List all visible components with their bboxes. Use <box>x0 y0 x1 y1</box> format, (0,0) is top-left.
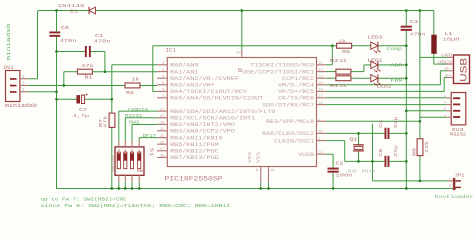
capacitor C6 symbol <box>49 32 60 34</box>
svg-text:1: 1 <box>444 95 446 99</box>
wire ground rail <box>56 188 456 190</box>
LED1 symbol <box>371 61 378 68</box>
svg-text:C2: C2 <box>336 160 344 166</box>
svg-text:JP1: JP1 <box>455 175 466 179</box>
svg-text:1: 1 <box>318 118 320 122</box>
svg-text:4: 4 <box>162 75 164 79</box>
svg-text:9: 9 <box>318 138 320 142</box>
svg-text:comp: comp <box>387 47 403 52</box>
wire C7 right <box>85 98 112 100</box>
svg-text:DF17: DF17 <box>143 133 157 139</box>
svg-text:7: 7 <box>162 95 164 99</box>
svg-text:2: 2 <box>449 185 451 189</box>
resistor R2 body <box>125 83 140 88</box>
svg-text:20: 20 <box>236 52 240 56</box>
svg-text:23: 23 <box>160 122 164 126</box>
svg-text:2: 2 <box>162 62 164 66</box>
wire RA0 horizontal <box>112 64 157 66</box>
capacitor C7 symbol (polarized) <box>76 95 80 103</box>
wire RC0 hook <box>326 64 332 66</box>
svg-text:1k: 1k <box>339 83 347 89</box>
wire VSS pins to ground <box>260 182 262 188</box>
svg-text:VM/D-/RC4: VM/D-/RC4 <box>278 83 314 89</box>
svg-text:RB4/AN11/KBI0: RB4/AN11/KBI0 <box>170 135 223 141</box>
op-amp U1 IC1 box <box>167 58 316 167</box>
wire OSC1 row <box>326 140 345 142</box>
svg-text:18: 18 <box>318 102 322 106</box>
svg-text:C4: C4 <box>379 119 384 128</box>
svg-text:D1: D1 <box>70 8 78 14</box>
svg-text:miniadsb: miniadsb <box>5 103 37 109</box>
svg-text:up to Fw 7: SW2(RB2)=CRC: up to Fw 7: SW2(RB2)=CRC <box>41 196 127 202</box>
svg-text:C3: C3 <box>410 19 418 25</box>
svg-text:RB3/AN9/CCP2/VPO: RB3/AN9/CCP2/VPO <box>170 129 235 135</box>
svg-text:miniadsb: miniadsb <box>6 24 12 61</box>
svg-text:11: 11 <box>318 62 322 66</box>
resistor R1 body <box>77 69 92 74</box>
wire C5 row left <box>345 160 385 162</box>
svg-text:RS232: RS232 <box>450 132 466 137</box>
svg-text:22k: 22k <box>425 140 430 153</box>
wire C6 branch lower / left vertical bus <box>56 36 58 189</box>
wire MCLR horizontal <box>326 120 420 122</box>
resistor R4 body <box>336 76 351 81</box>
wire L1 to UBUS <box>433 54 435 64</box>
LED3 symbol <box>371 42 378 49</box>
svg-text:RA6/CLKO/OSC2: RA6/CLKO/OSC2 <box>262 131 314 137</box>
svg-text:2: 2 <box>444 102 446 106</box>
svg-text:D+: D+ <box>445 74 453 79</box>
jumper JP1 body <box>453 178 455 190</box>
svg-text:C1: C1 <box>95 33 103 39</box>
wire GND bus lower <box>405 30 407 188</box>
svg-text:22p: 22p <box>394 145 399 158</box>
svg-text:28: 28 <box>160 155 164 159</box>
switch S1 top pin stubs <box>118 141 120 147</box>
IC1 right pin stubs <box>317 64 326 66</box>
svg-text:R5: R5 <box>342 49 350 55</box>
svg-text:RB7/KBI3/PGD: RB7/KBI3/PGD <box>170 155 219 161</box>
wire DIP switch grounds <box>118 182 120 189</box>
capacitor C3 symbol <box>401 26 412 28</box>
svg-text:8: 8 <box>256 169 258 173</box>
capacitor C5 symbol <box>385 156 387 167</box>
svg-text:470n: 470n <box>410 32 426 38</box>
connector USB body <box>454 55 470 84</box>
svg-text:1k: 1k <box>338 39 346 45</box>
svg-text:RE3/VPP/MCLR: RE3/VPP/MCLR <box>266 119 314 125</box>
wire RA4 stub link <box>153 90 157 92</box>
IC1 left pin stubs <box>157 64 167 66</box>
svg-text:since Fw 8: SW2(RB2)=TimeTAG;: since Fw 8: SW2(RB2)=TimeTAG; RB5=CRC; R… <box>41 203 231 209</box>
svg-text:RB1/SCL/SCK/AN10/INT1: RB1/SCL/SCK/AN10/INT1 <box>170 116 255 122</box>
svg-text:RA3/AN3/VR+: RA3/AN3/VR+ <box>170 83 215 89</box>
capacitor C4 symbol <box>385 128 387 139</box>
wire R8 lower vertical <box>419 156 421 181</box>
svg-text:47k: 47k <box>103 115 108 128</box>
svg-text:C6: C6 <box>61 25 69 31</box>
junction dots <box>55 9 58 12</box>
svg-text:1N4148: 1N4148 <box>58 3 85 9</box>
connector SV1 pin stubs <box>20 78 27 80</box>
wire remote net <box>119 110 157 112</box>
resistor R7 body <box>109 113 115 127</box>
wire USB GND row <box>420 56 447 58</box>
wire VDD drop to IC pin20 <box>241 11 243 50</box>
wire RA0 riser <box>111 65 113 113</box>
wire C4 right to GND bus <box>389 132 406 134</box>
svg-text:UOE/CCP2/T1OSI/RC1: UOE/CCP2/T1OSI/RC1 <box>242 69 314 75</box>
svg-text:3: 3 <box>124 150 126 154</box>
svg-text:15: 15 <box>318 82 322 86</box>
wire GND to SV3 pin3 <box>406 110 446 112</box>
wire R5 to LED3 <box>352 45 371 47</box>
wire LED2 cathode to GND bus <box>378 77 406 79</box>
wire RC2 to R4 <box>326 77 336 79</box>
svg-text:R1: R1 <box>85 75 93 81</box>
connector USB pin stubs <box>447 56 453 58</box>
wire VDD top rail (right of D1) <box>95 10 434 12</box>
svg-text:VSS: VSS <box>258 151 262 163</box>
svg-text:RB6/KBI2/PGC: RB6/KBI2/PGC <box>170 149 219 155</box>
wire GND bus upper <box>405 11 407 26</box>
svg-text:CLKIN/OSC1: CLKIN/OSC1 <box>274 138 314 144</box>
wire R1 right to RA1 <box>92 71 157 73</box>
svg-text:R2: R2 <box>126 90 134 96</box>
wire LED3 cathode to GND bus <box>378 45 406 47</box>
svg-text:10: 10 <box>318 131 322 135</box>
wire Q1 top stem <box>358 133 360 144</box>
svg-text:RB2/AN8/INT2/VMO: RB2/AN8/INT2/VMO <box>170 122 235 128</box>
wire SW2 net <box>132 124 157 126</box>
switch S1 sliders <box>117 152 120 169</box>
svg-text:3: 3 <box>162 69 164 73</box>
wire VUSB to C2 <box>326 153 333 155</box>
svg-text:SW2: SW2 <box>129 120 140 126</box>
crystal Q1 symbol <box>353 144 364 146</box>
svg-text:LED3: LED3 <box>368 35 383 41</box>
svg-text:T13CKI/T1OSO/RC0: T13CKI/T1OSO/RC0 <box>250 63 314 69</box>
svg-text:remote: remote <box>128 106 149 112</box>
svg-text:3: 3 <box>444 108 446 112</box>
svg-text:6: 6 <box>162 89 164 93</box>
LED2 symbol <box>371 75 378 82</box>
wire OSC2 row left <box>326 132 384 134</box>
svg-text:RA0/AN0: RA0/AN0 <box>170 63 198 69</box>
svg-text:LED2: LED2 <box>377 84 392 90</box>
svg-text:SW160: SW160 <box>112 156 116 173</box>
wire VDD top rail (left of D1) <box>38 10 89 12</box>
wire DF17 net <box>139 137 157 139</box>
wire RC5 to USB D+ <box>326 90 444 92</box>
wire RC6 TX to SV3 <box>326 97 446 99</box>
svg-text:13: 13 <box>318 75 322 79</box>
svg-text:21: 21 <box>160 108 164 112</box>
wire RS232 net <box>125 117 157 119</box>
svg-text:bootloader: bootloader <box>435 194 474 200</box>
svg-text:12: 12 <box>318 69 322 73</box>
svg-text:1k: 1k <box>132 76 140 82</box>
svg-text:GND: GND <box>441 54 453 59</box>
svg-text:C7: C7 <box>79 107 87 113</box>
svg-text:22: 22 <box>160 115 164 119</box>
wire MCLR pullup vertical upper <box>419 11 421 139</box>
wire LED1 cathode to GND bus <box>378 64 406 66</box>
svg-text:1: 1 <box>449 178 451 182</box>
wire Q1 bottom stem <box>358 151 360 162</box>
wire RC7 RX to SV3 <box>326 104 446 106</box>
wire C6-C1 link <box>57 51 85 53</box>
connector SV1 body <box>6 71 20 102</box>
svg-text:S1: S1 <box>149 148 155 157</box>
svg-text:10µH: 10µH <box>443 36 460 42</box>
wire RC4 to USB D- <box>326 84 440 86</box>
svg-text:4,7µ: 4,7µ <box>73 113 89 119</box>
svg-text:SDO/DT/RX/RC7: SDO/DT/RX/RC7 <box>262 102 314 108</box>
svg-text:IC1: IC1 <box>166 48 177 54</box>
wire osc return vertical <box>372 124 374 181</box>
svg-text:VUSB: VUSB <box>298 152 314 158</box>
capacitor C1 symbol <box>85 46 87 57</box>
svg-text:RA2/AN2/VR-/CVREF: RA2/AN2/VR-/CVREF <box>170 76 239 82</box>
svg-text:LED1: LED1 <box>368 57 383 63</box>
svg-text:47k: 47k <box>81 63 94 69</box>
wire C7 left <box>57 98 77 100</box>
connector SV3 body <box>451 93 466 125</box>
svg-text:14: 14 <box>318 151 322 155</box>
svg-text:27: 27 <box>160 148 164 152</box>
svg-text:RA4/T0CKI/C1OUT/RCV: RA4/T0CKI/C1OUT/RCV <box>170 89 248 95</box>
svg-text:CCP1/RC2: CCP1/RC2 <box>282 76 314 82</box>
svg-text:2: 2 <box>131 150 133 154</box>
wire C5 right to GND bus <box>389 160 406 162</box>
inductor L1 body <box>431 35 436 54</box>
svg-text:L1: L1 <box>445 31 453 37</box>
wire L1 feed from rail <box>433 11 435 35</box>
svg-text:C5: C5 <box>379 148 384 157</box>
jumper JP1 pin stubs <box>448 180 453 182</box>
svg-text:VSS: VSS <box>249 151 253 163</box>
svg-text:CK/TX/RC6: CK/TX/RC6 <box>278 96 314 102</box>
capacitor C2 symbol <box>328 168 339 170</box>
connector SV3 pin stubs <box>446 97 451 99</box>
svg-text:RA1/AN1: RA1/AN1 <box>170 69 198 75</box>
wire SV1 pin2 to R2 <box>27 85 125 87</box>
svg-text:22p: 22p <box>394 116 399 129</box>
IC1 VSS pin stubs <box>260 167 262 183</box>
svg-text:USB: USB <box>459 58 469 82</box>
wire R2 to RA3 <box>140 85 157 87</box>
wire SV1 pin3 riser <box>37 11 39 79</box>
wire RC1 to R3 <box>326 71 336 73</box>
svg-text:4: 4 <box>118 150 120 154</box>
wire JP1 pin2 hook <box>455 187 457 189</box>
svg-text:UBUS: UBUS <box>438 60 454 65</box>
wire R7 lower to ground <box>111 127 113 188</box>
svg-text:25: 25 <box>160 135 164 139</box>
wire long top net to RC0/R5 <box>153 45 337 47</box>
IC1 UOE inversion circle <box>238 69 241 72</box>
svg-text:RB5/KBI1/PGM: RB5/KBI1/PGM <box>170 142 219 148</box>
svg-text:1: 1 <box>138 150 140 154</box>
switch S1 bottom pin stubs <box>118 175 120 181</box>
resistor R8 body <box>417 139 423 156</box>
svg-text:FRM: FRM <box>391 78 403 84</box>
resistor R5 body <box>337 43 352 48</box>
svg-text:R4: R4 <box>330 83 338 89</box>
wire SV1 pin1 <box>27 91 56 93</box>
svg-text:470n: 470n <box>94 39 111 45</box>
wire bootloader line <box>373 180 448 182</box>
wire C6 branch upper <box>56 11 58 32</box>
diode D1 symbol <box>89 7 95 14</box>
IC1 VDD pin stub <box>241 49 243 57</box>
resistor R3 body <box>336 69 351 74</box>
svg-text:RA5/AN4/SS/HLVDIN/C2OUT: RA5/AN4/SS/HLVDIN/C2OUT <box>170 96 263 102</box>
svg-text:4: 4 <box>444 114 446 118</box>
svg-text:VP/D+/RC5: VP/D+/RC5 <box>278 89 314 95</box>
svg-text:RB0/SDA/SDI/AN12/INT0/FLT0: RB0/SDA/SDI/AN12/INT0/FLT0 <box>170 109 275 115</box>
svg-text:RS232: RS232 <box>125 113 142 119</box>
svg-text:24: 24 <box>160 128 164 132</box>
svg-text:R8: R8 <box>412 147 417 156</box>
wire R3 to LED1 jog <box>351 71 364 73</box>
wire C1 right to riser <box>91 51 105 53</box>
svg-text:PIC18F2550SP: PIC18F2550SP <box>165 176 224 183</box>
svg-text:R7: R7 <box>99 118 104 127</box>
connector SV1 contacts <box>10 78 17 80</box>
wire R1 left hook <box>64 71 78 73</box>
svg-text:ON: ON <box>137 170 143 174</box>
svg-text:1k: 1k <box>339 58 347 64</box>
svg-text:470n: 470n <box>60 38 77 44</box>
svg-text:SV1: SV1 <box>4 65 14 71</box>
wire C2 to ground <box>332 171 334 188</box>
svg-text:Q1: Q1 <box>350 137 358 143</box>
switch S1 body <box>115 147 144 175</box>
svg-text:R3: R3 <box>330 58 338 64</box>
svg-text:16: 16 <box>318 89 322 93</box>
svg-text:19: 19 <box>270 169 274 173</box>
svg-text:5: 5 <box>162 82 164 86</box>
wire MCLR branch to SV3 pin4 <box>420 116 446 118</box>
wire T0CKI riser <box>152 46 154 92</box>
wire R4 to LED2 <box>351 77 371 79</box>
connector SV3 contacts <box>453 97 460 99</box>
svg-text:100n: 100n <box>336 173 353 179</box>
svg-text:D-: D- <box>445 67 453 72</box>
svg-text:ADR: ADR <box>391 63 403 69</box>
svg-text:17: 17 <box>318 95 322 99</box>
svg-text:26: 26 <box>160 141 164 145</box>
